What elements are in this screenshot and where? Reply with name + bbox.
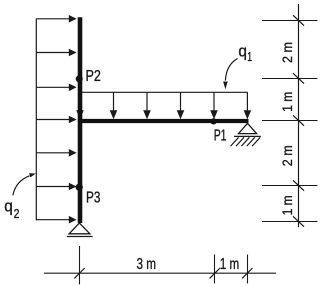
svg-text:2: 2 bbox=[14, 207, 20, 221]
svg-text:2 m: 2 m bbox=[279, 145, 295, 166]
dim tick right 3 bbox=[262, 115, 318, 125]
dim tick bottom 2 bbox=[210, 255, 220, 284]
svg-text:1 m: 1 m bbox=[279, 195, 295, 215]
dim tick bottom 3 bbox=[242, 255, 252, 284]
q2 arrow 5 bbox=[36, 149, 76, 157]
dim tick right 2 bbox=[262, 73, 318, 83]
q1 arrow 1 bbox=[76, 92, 84, 119]
svg-text:P1: P1 bbox=[214, 127, 227, 144]
q1 arrow 3 bbox=[143, 92, 151, 119]
dim tick right 4 bbox=[262, 180, 318, 190]
member vertical column bbox=[78, 17, 83, 223]
dimension line bottom bbox=[44, 272, 276, 274]
q2 arrow 6 bbox=[36, 183, 76, 191]
q1 arrow 2 bbox=[110, 92, 118, 119]
svg-text:2 m: 2 m bbox=[279, 42, 295, 63]
wire q2 load baseline bbox=[35, 19, 37, 221]
node P3 bbox=[76, 184, 83, 191]
q2 arrow 2 bbox=[36, 49, 76, 57]
q2 arrow 3 bbox=[36, 84, 76, 92]
svg-text:1: 1 bbox=[247, 50, 252, 64]
q1 leader arrow bbox=[223, 59, 237, 90]
svg-text:1 m: 1 m bbox=[279, 92, 295, 112]
q1 arrow 5 bbox=[210, 92, 218, 119]
dim tick bottom 1 bbox=[74, 246, 84, 284]
dim tick right 1 bbox=[262, 15, 318, 25]
q2 arrow 1 bbox=[36, 15, 76, 23]
dimension line right bbox=[298, 4, 300, 227]
q2 arrow 4 bbox=[36, 116, 76, 124]
label q1 bbox=[238, 43, 252, 64]
node P2 bbox=[76, 75, 83, 82]
svg-text:P3: P3 bbox=[86, 190, 100, 207]
svg-text:3 m: 3 m bbox=[137, 256, 157, 273]
member horizontal beam bbox=[78, 119, 249, 123]
svg-text:1 m: 1 m bbox=[220, 256, 240, 273]
label q2 bbox=[4, 197, 19, 221]
support pin right bbox=[231, 123, 261, 146]
svg-text:q: q bbox=[238, 43, 247, 61]
wire q1 load baseline bbox=[80, 91, 248, 93]
q2 arrow 7 bbox=[36, 216, 76, 224]
svg-text:q: q bbox=[4, 197, 13, 215]
q2 leader arrow bbox=[13, 173, 36, 195]
dim tick right 5 bbox=[262, 216, 318, 226]
q1 arrow 4 bbox=[177, 92, 185, 119]
support roller bottom bbox=[67, 223, 93, 237]
node P1 bbox=[211, 118, 217, 124]
svg-text:P2: P2 bbox=[86, 68, 101, 85]
q1 arrow 6 bbox=[244, 92, 252, 119]
